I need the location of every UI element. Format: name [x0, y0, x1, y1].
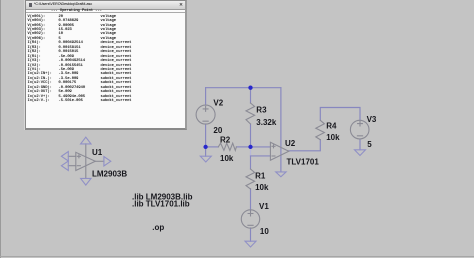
wire R2 right lead	[236, 146, 250, 148]
op-amp U1 output stub	[95, 160, 104, 162]
op-amp U1 plus mark	[77, 155, 80, 158]
wire R4 top to V3 top	[320, 108, 360, 121]
wire rail drop through U2 to ground	[280, 88, 282, 172]
U1 floating pin arrow top	[81, 137, 91, 144]
operating point data rows	[28, 15, 132, 104]
wire V2 bottom to ground junction	[205, 124, 207, 156]
svg-text:U2: U2	[285, 139, 296, 148]
wire R3 bottom lead	[250, 124, 252, 147]
op-amp U1 power pin line	[85, 144, 87, 179]
wire minus input branch	[251, 155, 271, 157]
svg-text:10k: 10k	[255, 183, 269, 192]
voltage source V1	[241, 210, 259, 228]
operating point header	[51, 9, 102, 13]
bottom window edge	[0, 256, 474, 257]
operating point window	[24, 0, 25, 130]
svg-text:10k: 10k	[326, 133, 340, 142]
ground under V1	[245, 241, 256, 247]
resistor R3 body	[246, 103, 255, 124]
ground under V3	[355, 150, 366, 156]
op-amp U2 minus mark	[272, 155, 275, 157]
junction dot top rail	[248, 86, 252, 90]
wire V2 top to rail corner	[205, 88, 207, 106]
wire junction to U2 plus input	[251, 146, 271, 148]
op-amp U2 plus mark	[272, 145, 275, 148]
svg-text:R3: R3	[256, 106, 267, 115]
junction dot V2 ground node	[203, 145, 207, 149]
op-amp U2 triangle	[270, 142, 288, 160]
svg-text:R4: R4	[326, 122, 337, 131]
op-amp U1 minus mark	[77, 165, 80, 167]
svg-text:R1: R1	[255, 172, 266, 181]
svg-text:3.32k: 3.32k	[256, 118, 277, 127]
U1 floating pin arrow bottom	[81, 178, 91, 185]
voltage source V2	[196, 105, 215, 124]
resistor R1 body	[246, 169, 255, 189]
svg-text:.lib TLV1701.lib: .lib TLV1701.lib	[132, 200, 190, 209]
svg-text:V2: V2	[213, 99, 223, 108]
resistor R2 body	[218, 143, 236, 150]
window title bar	[26, 1, 185, 10]
wire R2 left lead	[206, 146, 219, 148]
ground under U2	[276, 172, 286, 177]
svg-text:10: 10	[260, 227, 269, 236]
voltage source V3	[350, 120, 369, 139]
wire R3 top lead	[250, 88, 252, 103]
faint wire stub below junction	[250, 149, 252, 156]
svg-text:10k: 10k	[220, 154, 234, 163]
U1 floating pin arrow output	[104, 157, 111, 166]
ground under V2 junction	[200, 156, 211, 162]
svg-text:20: 20	[213, 126, 222, 135]
svg-text:LM2903B: LM2903B	[92, 169, 127, 178]
svg-text:.op: .op	[152, 223, 164, 232]
wire V3 bottom to ground	[359, 139, 361, 150]
U1 floating pin arrow input2	[61, 161, 68, 170]
svg-text:V3: V3	[367, 115, 377, 124]
wire top rail	[206, 87, 281, 89]
wire V1 bottom to ground	[250, 228, 252, 241]
svg-text:5: 5	[367, 140, 372, 149]
wire R1 branch vertical	[250, 156, 252, 169]
U1 floating pin arrow input1	[61, 152, 68, 161]
wire U2 output to R4	[289, 140, 321, 151]
op-amp U1 input stubs	[68, 156, 76, 165]
junction dot divider node	[248, 145, 252, 149]
left window edge	[0, 0, 1, 258]
svg-text:U1: U1	[92, 148, 103, 157]
svg-text:TLV1701: TLV1701	[287, 158, 320, 167]
svg-text:V1: V1	[259, 202, 269, 211]
resistor R4 body	[316, 120, 325, 139]
svg-text:R2: R2	[220, 136, 231, 145]
op-amp U1 triangle	[76, 152, 96, 170]
wire R1 bottom to V1 top	[250, 189, 252, 210]
